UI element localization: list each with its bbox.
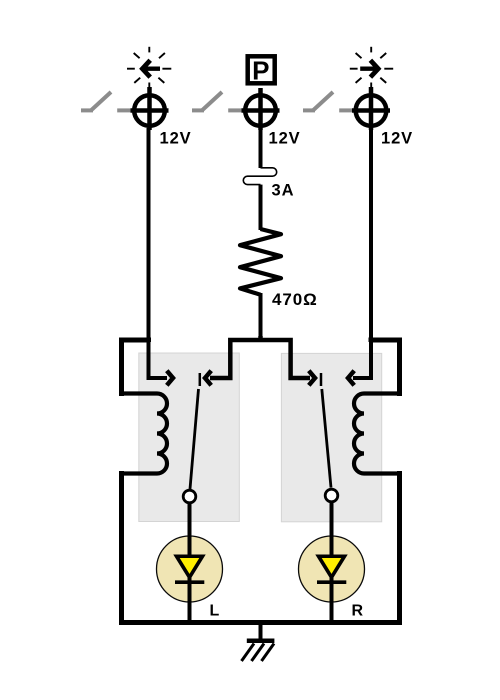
svg-text:P: P (252, 55, 270, 85)
svg-text:12V: 12V (269, 130, 301, 148)
svg-text:470Ω: 470Ω (272, 290, 318, 309)
svg-text:L: L (210, 603, 221, 620)
svg-text:3A: 3A (272, 182, 295, 200)
svg-text:12V: 12V (160, 130, 192, 148)
svg-text:R: R (352, 603, 364, 620)
svg-text:12V: 12V (381, 130, 413, 148)
